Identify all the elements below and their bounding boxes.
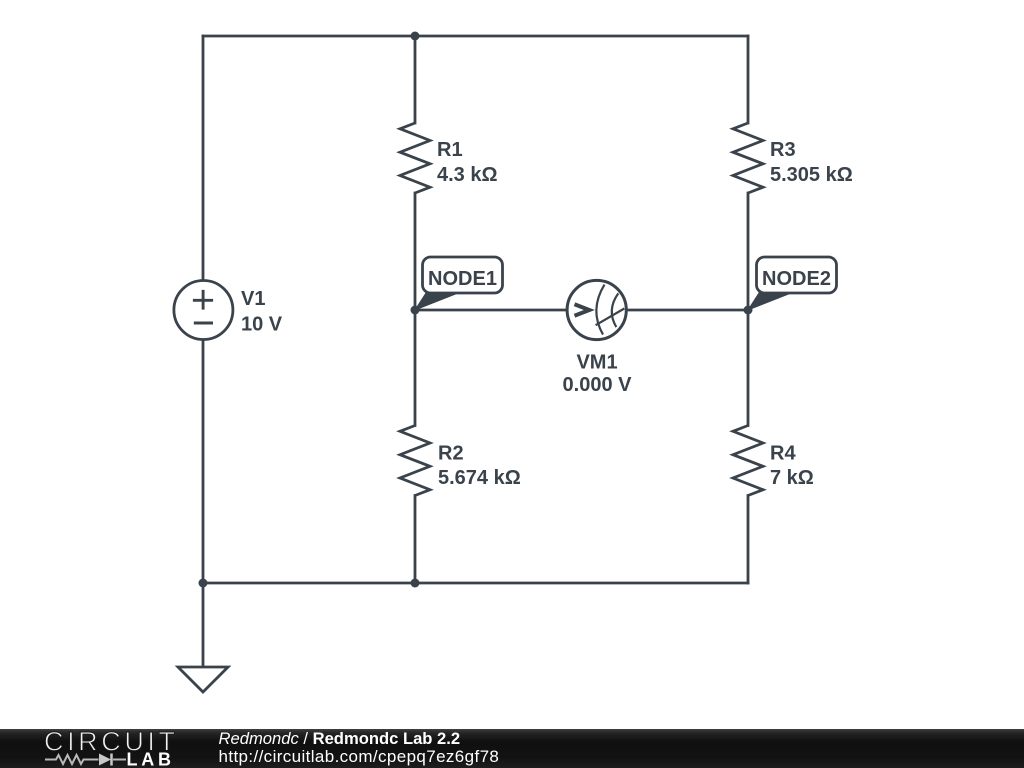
svg-text:0.000 V: 0.000 V — [563, 374, 633, 396]
wire R3 to NODE2 — [747, 193, 750, 310]
svg-text:LAB: LAB — [127, 750, 174, 768]
svg-text:10 V: 10 V — [241, 314, 283, 336]
wire left vertical upper (V1 top lead) — [202, 36, 205, 280]
svg-text:R1: R1 — [437, 139, 463, 161]
junction dot top — [411, 32, 420, 41]
wire voltmeter to NODE2 — [627, 309, 748, 312]
svg-text:7 kΩ: 7 kΩ — [770, 467, 814, 489]
voltage source V1 — [174, 281, 233, 340]
junction dot bottom middle — [411, 579, 420, 588]
wire NODE1 to voltmeter — [415, 309, 567, 312]
junction dot NODE1 — [411, 306, 420, 315]
wire top bus — [203, 35, 748, 38]
svg-text:Redmondc / Redmondc Lab 2.2: Redmondc / Redmondc Lab 2.2 — [219, 729, 461, 748]
wire NODE1 to R2 — [414, 310, 417, 426]
svg-text:R4: R4 — [770, 443, 796, 465]
node NODE2 flag — [748, 257, 837, 310]
wire ground stub — [202, 583, 205, 667]
junction dot NODE2 — [744, 306, 753, 315]
wire middle branch top (to R1) — [414, 36, 417, 123]
resistor R2 — [400, 426, 430, 496]
wire R4 to bottom bus — [747, 496, 750, 584]
logo diode — [99, 754, 126, 766]
svg-text:5.674 kΩ: 5.674 kΩ — [438, 467, 521, 489]
svg-text:4.3 kΩ: 4.3 kΩ — [437, 164, 498, 186]
voltmeter VM1 — [567, 280, 626, 339]
wire bottom bus — [203, 582, 748, 585]
svg-text:NODE1: NODE1 — [428, 268, 497, 290]
svg-text:V1: V1 — [241, 288, 265, 310]
wire right branch top (to R3) — [747, 36, 750, 123]
svg-text:R2: R2 — [438, 443, 464, 465]
resistor R3 — [733, 123, 763, 193]
svg-text:NODE2: NODE2 — [762, 268, 831, 290]
junction dot bottom left — [199, 579, 208, 588]
resistor R4 — [733, 426, 763, 496]
wire left vertical lower (V1 bottom lead) — [202, 340, 205, 583]
svg-text:http://circuitlab.com/cpepq7ez: http://circuitlab.com/cpepq7ez6gf78 — [219, 747, 500, 766]
svg-text:VM1: VM1 — [576, 352, 617, 374]
node NODE1 flag — [415, 257, 503, 310]
wire R1 to NODE1 — [414, 193, 417, 310]
ground — [178, 667, 228, 692]
wire NODE2 to R4 — [747, 310, 750, 426]
logo resistor zigzag — [45, 755, 99, 764]
resistor R1 — [400, 123, 430, 193]
svg-text:R3: R3 — [770, 139, 796, 161]
footer bar — [0, 729, 1024, 768]
svg-text:5.305 kΩ: 5.305 kΩ — [770, 164, 853, 186]
wire R2 to bottom bus — [414, 496, 417, 584]
